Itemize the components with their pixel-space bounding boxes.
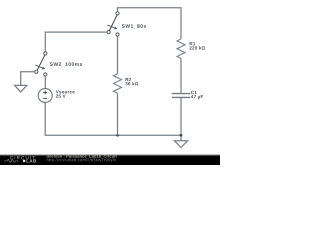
value 220 kOhm — [189, 46, 205, 49]
CircuitLab logo resistor zigzag — [4, 159, 19, 162]
SW1 top terminal — [116, 12, 119, 15]
wire SW1 bottom terminal to R2 top — [117, 36, 119, 74]
value 25 V — [56, 94, 66, 97]
SW2 blade — [37, 55, 45, 70]
SW1 actuator arrow — [107, 25, 114, 28]
SW1 bottom terminal — [116, 33, 119, 36]
plus sign — [43, 91, 47, 95]
SW1 left terminal — [107, 30, 110, 33]
label C1 — [191, 91, 197, 94]
junction dot at C1 / bottom rail — [180, 134, 183, 137]
SW2 top terminal — [44, 52, 47, 55]
label R2 — [126, 78, 132, 81]
wire R2 bottom to bottom rail — [117, 93, 119, 135]
value 47 uF — [191, 95, 203, 99]
bottom banner bar — [0, 154, 220, 165]
SW2 actuator arrow — [35, 65, 42, 68]
SW2 bottom terminal — [44, 73, 47, 76]
wire C1 bottom to ground junction — [180, 98, 182, 141]
label R1 — [190, 42, 196, 45]
resistor R2 — [114, 74, 122, 93]
CircuitLab logo square mark — [23, 160, 25, 162]
capacitor C1 — [172, 94, 191, 98]
CircuitLab logo text LAB — [27, 159, 37, 162]
resistor R1 — [177, 39, 185, 58]
ground right — [174, 141, 187, 148]
wire SW1 top terminal to R1 top (top rail) — [118, 8, 182, 39]
voltage source Vsource — [38, 89, 52, 103]
label SW1_80s — [122, 24, 146, 28]
wire bottom rail from Vsource to right ground — [45, 103, 181, 136]
CircuitLab logo text CIRCUIT — [10, 156, 35, 159]
SW1 blade — [109, 15, 117, 31]
junction dot at R2 / bottom rail — [116, 134, 119, 137]
minus sign — [43, 97, 47, 99]
SW2 left terminal — [35, 70, 38, 73]
banner title text — [66, 155, 116, 158]
label Vsource — [56, 90, 75, 93]
wire SW1 left terminal to SW2 top terminal — [45, 32, 107, 52]
switch SW2 (SPDT toggle) — [35, 52, 47, 76]
value 36 kOhm — [125, 82, 138, 85]
banner url text — [47, 158, 116, 162]
wire R1 bottom to C1 top — [180, 58, 182, 93]
ground left — [15, 85, 27, 92]
label SW2_100ms — [50, 62, 82, 66]
banner author text — [47, 155, 65, 158]
switch SW1 (SPDT toggle) — [107, 12, 119, 36]
wire SW2 left terminal to left ground — [21, 72, 35, 86]
wire SW2 bottom terminal to Vsource top — [44, 76, 46, 88]
